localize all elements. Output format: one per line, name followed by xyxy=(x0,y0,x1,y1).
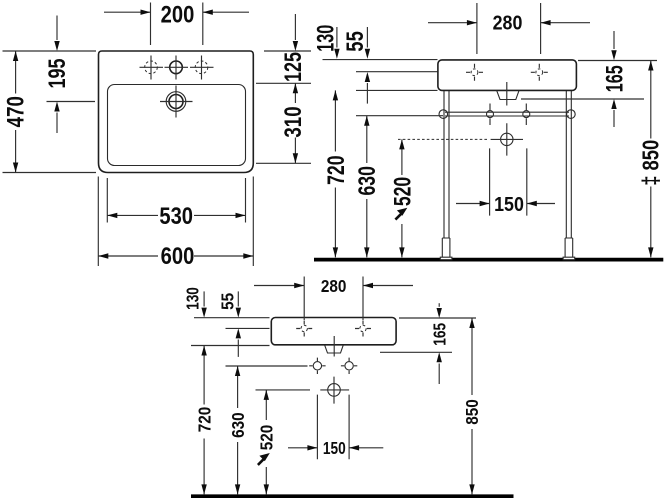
centerline through drain xyxy=(506,82,508,106)
console right leg xyxy=(566,90,571,238)
extension line basin top left xyxy=(194,317,270,319)
extension line basin top left xyxy=(323,59,438,61)
trap circle xyxy=(501,133,513,145)
dim 55 upper arrow xyxy=(237,291,239,306)
tap hole left (dashed) xyxy=(145,61,158,74)
dim 520 line xyxy=(265,390,267,495)
dim 150 extension lines xyxy=(490,148,527,215)
centerline through drain xyxy=(333,336,335,357)
drain inner circle xyxy=(169,95,183,109)
rail right knob xyxy=(567,110,576,119)
dim 600 arrowheads xyxy=(98,253,108,258)
rail left knob xyxy=(439,110,448,119)
extension line rail level left xyxy=(356,115,443,117)
dim 280 arrowheads xyxy=(294,283,304,288)
tap hole center xyxy=(170,61,183,74)
dim 850 arrowheads xyxy=(469,318,474,328)
dim 720 arrowheads xyxy=(201,346,206,356)
dim 470 extension lines xyxy=(3,51,97,173)
dim 125 upper arrow xyxy=(294,14,296,40)
svg-text:‡ 850: ‡ 850 xyxy=(639,140,664,186)
dim 310 arrowheads xyxy=(293,83,298,93)
svg-text:720: 720 xyxy=(194,407,214,433)
dim 470 line xyxy=(15,51,17,173)
floor line xyxy=(191,494,514,498)
dim 200 arrow tails xyxy=(104,11,249,13)
extension line mounting holes level xyxy=(226,365,308,367)
console left leg xyxy=(444,90,449,238)
tap cross right (dashed) xyxy=(536,69,543,76)
mounting hole left crosshair xyxy=(309,358,325,374)
dim 165 upper arrow xyxy=(438,303,440,307)
drain boss trapezoid xyxy=(325,345,344,353)
dim 150 arrowheads xyxy=(307,445,317,450)
dim 195 lower arrow xyxy=(56,113,58,134)
dim 530 arrowheads xyxy=(107,213,117,218)
rail connector left xyxy=(487,111,494,118)
dim 630 arrowheads xyxy=(364,116,369,126)
dim 200 arrowheads xyxy=(141,10,151,15)
tap cross right (dashed) xyxy=(360,325,366,331)
dim 195 extension line at drain level xyxy=(47,101,96,103)
svg-text:165: 165 xyxy=(431,323,450,346)
dim 310 line xyxy=(294,83,296,163)
dim 850 line xyxy=(650,61,652,258)
basin outer rim xyxy=(99,51,254,173)
dim 280 arrowheads xyxy=(467,20,477,25)
dim 530 extension lines xyxy=(107,178,245,223)
dim 200 extension lines xyxy=(151,3,203,46)
extension line basin top right xyxy=(578,60,657,62)
svg-text:165: 165 xyxy=(602,65,628,92)
dim 195 upper arrow xyxy=(56,16,58,41)
dim 55 lower arrow xyxy=(366,83,368,104)
dim 720 arrowheads xyxy=(333,90,338,100)
extension line basin bottom left xyxy=(191,345,270,347)
svg-text:125: 125 xyxy=(281,52,307,82)
svg-text:720: 720 xyxy=(323,156,349,185)
dim 280 extension lines xyxy=(304,277,363,321)
extension line basin bottom left xyxy=(356,89,438,91)
dim 720 line xyxy=(334,90,336,257)
floor line xyxy=(314,258,663,262)
svg-text:130: 130 xyxy=(184,287,203,310)
svg-text:150: 150 xyxy=(494,194,524,216)
rail connector right ticks xyxy=(525,104,527,126)
trap circle xyxy=(328,384,341,397)
svg-text:280: 280 xyxy=(493,13,523,35)
svg-text:55: 55 xyxy=(217,293,237,310)
svg-text:55: 55 xyxy=(342,31,369,52)
svg-text:470: 470 xyxy=(2,96,29,127)
console left foot xyxy=(442,238,450,257)
tap hole center crosshair xyxy=(165,56,189,80)
svg-text:130: 130 xyxy=(313,25,339,52)
svg-text:520: 520 xyxy=(390,177,416,206)
dim 520 arrowheads xyxy=(264,390,269,400)
dim 165 upper arrow xyxy=(613,31,615,49)
dim 55 upper arrow xyxy=(366,27,368,48)
svg-text:600: 600 xyxy=(161,242,195,269)
dim 630 line xyxy=(366,116,368,258)
mounting hole right crosshair xyxy=(341,358,357,374)
tap hole right (dashed) xyxy=(195,61,208,74)
dim 280 arrow tails xyxy=(254,285,413,287)
basin inner bowl xyxy=(108,85,246,166)
dim 150 arrow tails xyxy=(288,447,383,449)
dim 125 extension lines xyxy=(256,51,311,83)
dim 280 arrow tails xyxy=(428,22,590,24)
dim 165 lower arrow xyxy=(438,364,440,385)
svg-text:195: 195 xyxy=(45,58,71,88)
dim 150 arrowheads xyxy=(480,201,490,206)
dim 130 arrow xyxy=(203,291,205,306)
dim 850 line xyxy=(471,318,473,494)
svg-text:630: 630 xyxy=(228,412,248,438)
trap circle crosshair xyxy=(491,123,523,155)
tap cross left (dashed) xyxy=(301,325,307,331)
dim 630 arrowheads xyxy=(235,366,240,376)
trap circle crosshair xyxy=(320,377,349,404)
dim 130 arrow xyxy=(336,27,338,48)
dim 530 line xyxy=(107,214,245,216)
dim 55 lower arrow xyxy=(237,340,239,357)
dim 600 extension lines xyxy=(98,177,253,267)
console right foot xyxy=(565,238,573,257)
drain boss trapezoid xyxy=(497,91,519,100)
svg-text:150: 150 xyxy=(323,440,346,459)
mounting hole left xyxy=(313,362,321,370)
dim 850 arrowheads xyxy=(648,61,653,71)
extension line basin top right xyxy=(399,317,476,319)
basin body xyxy=(271,318,396,345)
dim 150 arrow tails xyxy=(456,203,555,205)
svg-text:630: 630 xyxy=(355,166,381,195)
extension line tap level left xyxy=(226,327,270,329)
dim 470 arrowheads xyxy=(13,51,18,61)
dim 630 line xyxy=(237,366,239,494)
extension line mounting level right xyxy=(521,98,644,100)
dim 310 extension line bottom xyxy=(256,162,311,164)
dim 720 line xyxy=(203,346,205,495)
dim 150 extension lines xyxy=(317,395,349,460)
drain outer circle xyxy=(166,92,186,112)
towel rail xyxy=(445,112,569,116)
svg-text:310: 310 xyxy=(280,106,307,137)
dim 600 line xyxy=(98,255,253,257)
svg-text:850: 850 xyxy=(462,399,482,425)
extension line tap level left xyxy=(356,71,438,73)
drain crosshair xyxy=(160,86,193,118)
drain direction symbol xyxy=(395,214,401,220)
extension line trap level xyxy=(256,389,311,391)
tap hole left crosshair xyxy=(140,56,164,80)
svg-text:520: 520 xyxy=(256,425,276,451)
dim 280 extension lines xyxy=(477,3,541,54)
rail connector left ticks xyxy=(489,104,491,126)
svg-text:530: 530 xyxy=(159,202,193,229)
extension line mounting plane right xyxy=(380,351,452,353)
svg-text:200: 200 xyxy=(161,1,195,28)
tap hole right crosshair xyxy=(190,56,214,80)
drain direction symbol xyxy=(258,459,264,465)
basin body xyxy=(438,60,577,91)
svg-text:280: 280 xyxy=(321,276,347,296)
rail connector right xyxy=(523,111,530,118)
dim 520 line xyxy=(401,139,403,257)
mounting hole right xyxy=(345,362,353,370)
tap cross left (dashed) xyxy=(471,69,478,76)
dashed line at 520 level xyxy=(398,138,489,140)
dim 165 lower arrow xyxy=(613,110,615,127)
dim 520 arrowheads xyxy=(399,139,404,149)
